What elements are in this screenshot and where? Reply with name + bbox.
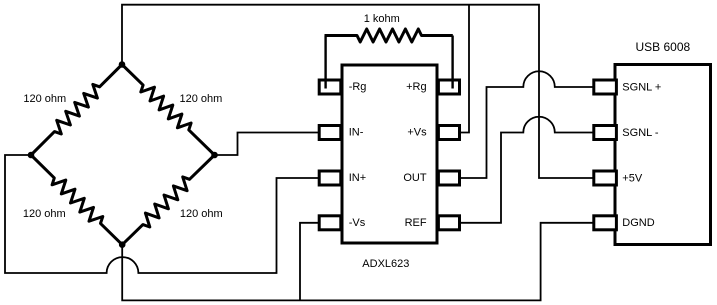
wire: 1 kohm right lead down into +Rg pin xyxy=(451,36,453,89)
svg-text:120 ohm: 120 ohm xyxy=(23,208,66,220)
node: bridge top junction xyxy=(119,61,126,68)
pin SGNL - (USB 6008) xyxy=(594,126,617,140)
pin IN- (ADXL623 left) xyxy=(319,126,341,140)
pin OUT (ADXL623 right) xyxy=(438,171,459,185)
svg-text:SGNL +: SGNL + xyxy=(622,81,661,93)
svg-text:120 ohm: 120 ohm xyxy=(23,93,66,105)
wire: bridge left node around left/bottom to IN+ pin, hop over bridge-bottom drop xyxy=(5,155,319,273)
wire: bridge bottom node down, bottom rail right, up to DGND pin (net DGND) xyxy=(122,223,594,301)
pin +Rg (ADXL623 right) xyxy=(438,80,459,94)
resistor 120 ohm (bridge bottom-left arm) xyxy=(31,155,122,245)
wire: 1 kohm right lead tip inside +Rg pin xyxy=(451,80,453,89)
wire: -Vs pin left then down to bottom rail (net DGND) xyxy=(300,223,319,301)
connector J1 USB 6008 body xyxy=(615,65,711,245)
resistor 120 ohm (bridge top-left arm) xyxy=(31,65,122,156)
svg-text:OUT: OUT xyxy=(403,172,427,184)
IC U1 ADXL623 body xyxy=(342,65,437,243)
pin -Vs (ADXL623 left) xyxy=(319,216,341,230)
resistor 120 ohm (bridge top-right arm) xyxy=(122,65,215,156)
pin +Vs (ADXL623 right) xyxy=(438,126,459,140)
svg-text:-Vs: -Vs xyxy=(349,217,366,229)
svg-text:120 ohm: 120 ohm xyxy=(180,208,223,220)
wire: +Vs pin right then up to top rail (net +5V) xyxy=(460,5,470,133)
svg-text:SGNL -: SGNL - xyxy=(622,127,659,139)
svg-text:IN+: IN+ xyxy=(349,172,366,184)
svg-text:-Rg: -Rg xyxy=(349,81,367,93)
wire: 1 kohm left lead tip inside -Rg pin xyxy=(324,80,326,89)
resistor 120 ohm (bridge bottom-right arm) xyxy=(122,155,214,245)
node: bridge left junction xyxy=(28,152,35,159)
svg-text:1 kohm: 1 kohm xyxy=(364,13,400,25)
svg-text:+Vs: +Vs xyxy=(407,127,427,139)
wire: OUT pin to SGNL+ pin, hop over +5V vertical drop xyxy=(460,71,594,178)
svg-text:IN-: IN- xyxy=(349,127,364,139)
pin -Rg (ADXL623 left) xyxy=(319,80,341,94)
svg-text:USB 6008: USB 6008 xyxy=(636,40,691,54)
svg-text:+5V: +5V xyxy=(622,172,643,184)
wire: bridge right node to IN- pin xyxy=(215,133,320,156)
node: bridge bottom junction xyxy=(119,241,126,248)
wire: REF pin to SGNL- pin, hop over +5V vertical drop xyxy=(460,117,594,223)
resistor 1 kohm (gain resistor across -Rg/+Rg) xyxy=(325,29,453,42)
svg-text:ADXL623: ADXL623 xyxy=(362,258,409,270)
pin SGNL + (USB 6008) xyxy=(594,80,617,94)
node: bridge right junction xyxy=(211,152,218,159)
svg-text:REF: REF xyxy=(405,217,427,229)
wire: 1 kohm left lead down into -Rg pin xyxy=(324,36,326,89)
svg-text:DGND: DGND xyxy=(622,217,654,229)
pin IN+ (ADXL623 left) xyxy=(319,171,341,185)
pin DGND (USB 6008) xyxy=(594,216,617,230)
svg-text:+Rg: +Rg xyxy=(406,81,427,93)
wire: bridge top node up to top rail, right, and down to +5V pin (net +5V) xyxy=(122,5,594,178)
svg-text:120 ohm: 120 ohm xyxy=(180,93,223,105)
pin +5V (USB 6008) xyxy=(594,171,617,185)
pin REF (ADXL623 right) xyxy=(438,216,459,230)
